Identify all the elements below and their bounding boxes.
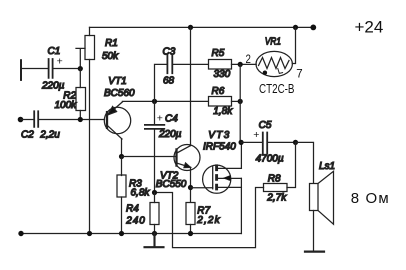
wire: C5 left (241, 141, 263, 143)
svg-text:+: + (57, 56, 63, 68)
resistor R1 (preset) body (85, 36, 95, 60)
svg-text:50k: 50k (102, 51, 119, 62)
wire: R6 right to riser (232, 100, 241, 102)
node: R3 on ground rail (119, 231, 124, 236)
resistor R7 body (186, 203, 195, 225)
svg-text:BC550: BC550 (156, 179, 187, 190)
wire: input 1 to C1 (21, 68, 49, 70)
wire: R3 bottom lead (121, 197, 123, 234)
node: C4/R4/feedback junction (152, 190, 157, 195)
ground symbol at R4 (145, 234, 164, 248)
resistor R8 body (264, 184, 288, 192)
wire: VT1 emitter horizontal to R6 (122, 100, 208, 102)
svg-text:C4: C4 (165, 113, 178, 124)
wire: VT2 collector riser to +24 rail (190, 27, 192, 145)
node: C5 left junction (239, 140, 244, 145)
capacitor C2 plates (34, 111, 38, 127)
wire: C5 right (267, 141, 295, 143)
wire: emitter node down to C4 (154, 101, 156, 125)
svg-text:R4: R4 (126, 203, 139, 214)
wire: R3 top lead (121, 157, 123, 176)
svg-text:VR1: VR1 (265, 36, 281, 47)
svg-text:2,2k: 2,2k (196, 215, 220, 226)
wire: C1 to junction (53, 68, 81, 70)
node: R5/VR1/riser junction (238, 62, 243, 67)
svg-text:+: + (157, 112, 163, 124)
wire: R1 bottom lead down to ground rail (89, 60, 91, 234)
svg-text:2: 2 (246, 54, 251, 66)
wire: VT3 source down to ground rail (240, 178, 242, 233)
node: output junction (293, 140, 298, 145)
svg-text:4700µ: 4700µ (256, 154, 284, 165)
wire: R2 top lead (79, 69, 81, 88)
wire: R1 top lead (89, 27, 91, 35)
svg-text:R1: R1 (105, 38, 118, 49)
wire: VT2 emitter down (190, 167, 192, 202)
resistor R5 body (209, 60, 232, 70)
capacitor C1 plates (49, 59, 53, 78)
node: R4 on ground rail (152, 231, 157, 236)
wire: R8 left lead long feedback path (155, 188, 264, 248)
node: R7 on ground rail (188, 231, 193, 236)
capacitor C4 plates (145, 125, 164, 129)
node: R1 lead on ground rail (87, 231, 92, 236)
node: rail junction at VT2 collector riser (188, 25, 193, 30)
svg-text:CT2C-B: CT2C-B (259, 82, 295, 96)
resistor R3 body (117, 175, 126, 197)
svg-text:100k: 100k (55, 100, 78, 111)
svg-text:220µ: 220µ (41, 81, 65, 92)
svg-text:Ls1: Ls1 (319, 161, 335, 172)
transistor VT2 BC550 (174, 145, 200, 171)
terminal: +24 supply dot (310, 25, 316, 31)
wire: emitter node up to C3 (155, 64, 168, 101)
terminal: input 1 bar (20, 60, 22, 80)
wire: R2 bottom lead (79, 111, 81, 120)
wire: C3 right to R5 (172, 63, 208, 65)
svg-text:C5: C5 (259, 120, 272, 131)
terminal: input 2 dot (18, 117, 24, 123)
node: rail junction at VR1 riser (293, 25, 298, 30)
wire: input 2 to C2 (21, 119, 35, 121)
capacitor C3 plates (167, 55, 172, 73)
svg-text:2,2u: 2,2u (39, 130, 60, 141)
wire: VT1 collector down to node (121, 139, 123, 157)
svg-text:VT3: VT3 (208, 130, 229, 141)
wire: C2 to VT1 base (38, 119, 104, 121)
resistor R6 body (209, 97, 232, 107)
wire: gate wire to VT3 (191, 187, 213, 189)
svg-text:240: 240 (125, 216, 145, 227)
node: emitter/C3/C4 junction (152, 99, 157, 104)
resistor R2 body (76, 88, 86, 111)
svg-text:1,8k: 1,8k (213, 106, 233, 117)
svg-text:R5: R5 (212, 48, 225, 59)
svg-text:7: 7 (296, 68, 302, 80)
wire: C4 bottom lead down to R4 node (154, 129, 156, 193)
transistor VT3 IRF540 (MOSFET) (203, 164, 242, 193)
svg-text:C2: C2 (21, 130, 34, 141)
wire: R1 wiper tap (76, 48, 85, 68)
svg-text:BC560: BC560 (104, 88, 135, 99)
variable resistor VR1 (CT2C-B) (256, 27, 296, 76)
node: emitter/R7/gate junction (188, 185, 193, 190)
svg-text:+: + (253, 129, 259, 141)
svg-text:VT1: VT1 (108, 76, 126, 87)
svg-text:C3: C3 (163, 47, 176, 58)
transistor VT1 BC560 (104, 102, 130, 139)
wire: collector node to VT2 base (122, 156, 177, 158)
ground symbol at speaker (305, 251, 324, 253)
svg-text:+24: +24 (355, 18, 384, 37)
wire: R7 bottom lead (190, 225, 192, 234)
svg-text:2,7k: 2,7k (266, 192, 287, 203)
node: C1/R1 wiper/R2 junction (78, 66, 83, 71)
svg-text:8 Ом: 8 Ом (351, 190, 389, 207)
wire: R5 right to VR1 pin2 (232, 63, 257, 65)
wire: R8 right lead up to output node (287, 142, 296, 187)
wire: R4 bottom lead (154, 225, 156, 234)
svg-text:R8: R8 (268, 173, 281, 184)
svg-text:R6: R6 (212, 86, 225, 97)
wire: VT3 drain riser up to C5 node (240, 142, 242, 168)
speaker Ls1 (296, 142, 334, 251)
svg-text:IRF540: IRF540 (203, 141, 236, 152)
wire: +24 top rail (90, 26, 314, 28)
wire: riser from R5 node down to C5 node (239, 64, 241, 142)
svg-text:220µ: 220µ (158, 129, 182, 140)
svg-text:68: 68 (163, 75, 175, 86)
svg-text:330: 330 (214, 69, 231, 80)
node: R6/riser junction (238, 99, 243, 104)
capacitor C5 plates (263, 133, 267, 154)
wire: R4 top lead (154, 193, 156, 203)
node: R2/base junction (78, 117, 83, 122)
node: VT1 collector / VT2 base / R3 junction (119, 154, 124, 159)
svg-text:6,8k: 6,8k (131, 187, 151, 198)
resistor R4 body (150, 203, 159, 225)
terminal: input ground dot (18, 231, 23, 236)
wire: ground rail (21, 233, 241, 235)
